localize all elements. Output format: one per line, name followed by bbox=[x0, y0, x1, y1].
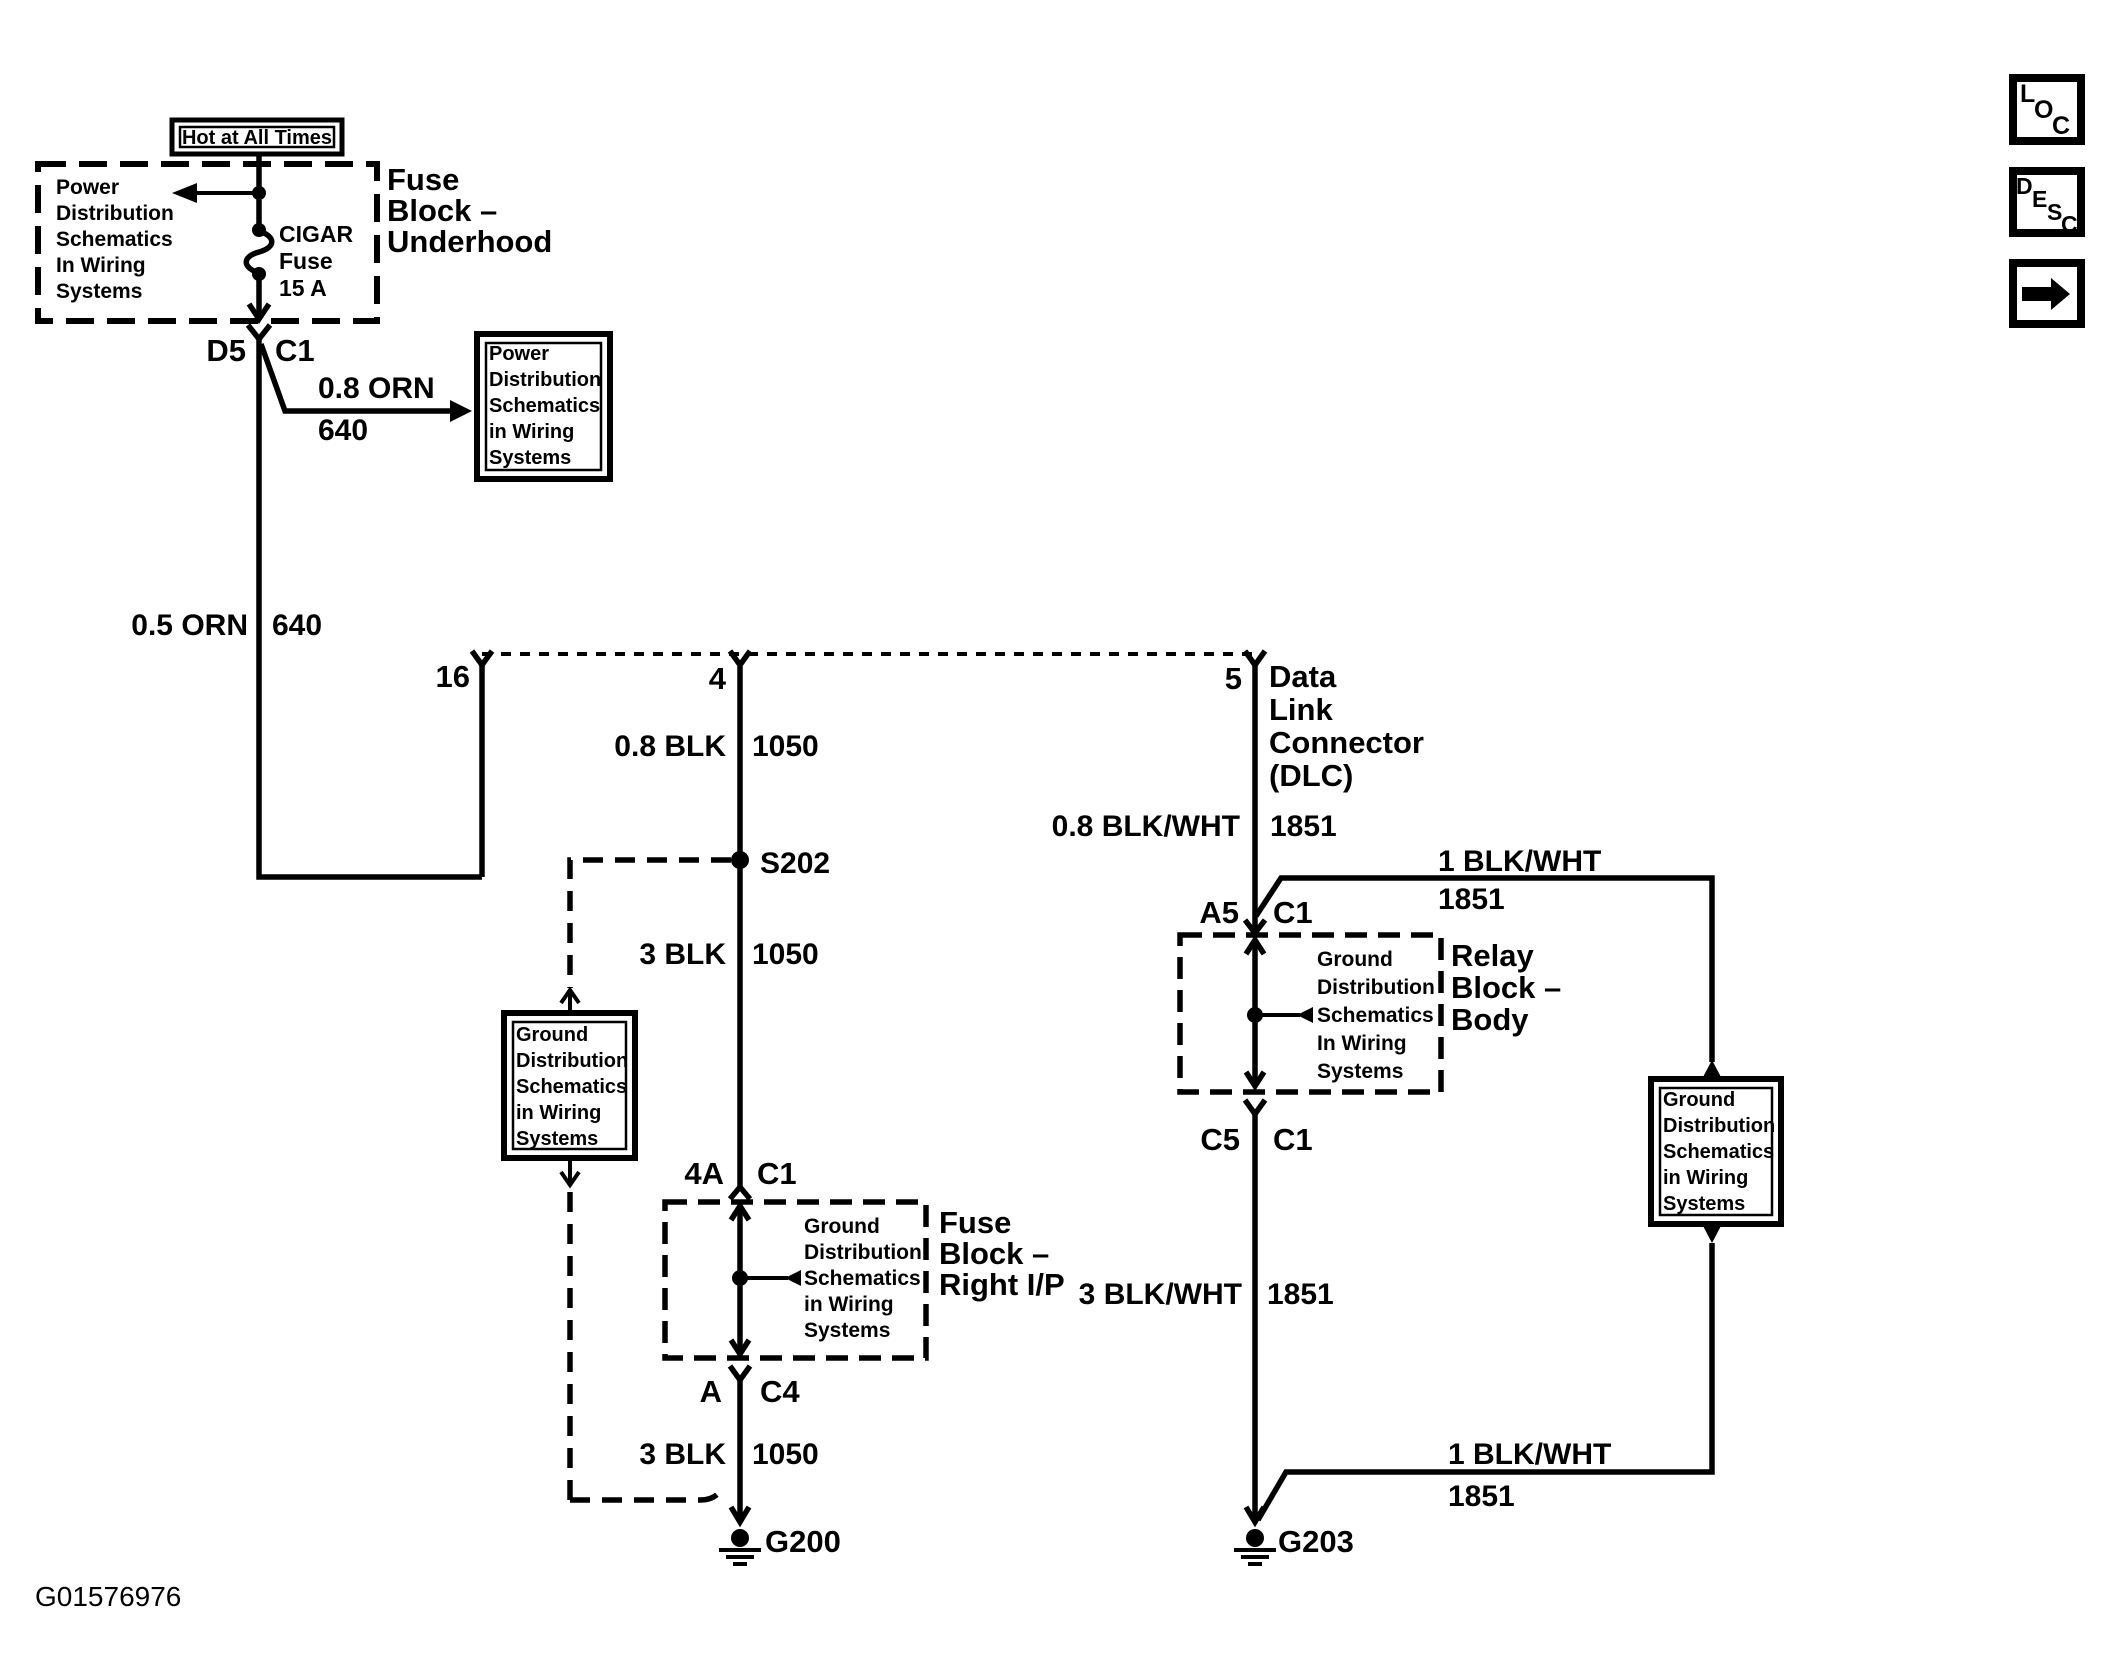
DLC dashed pin line bbox=[482, 652, 1255, 656]
wire: 0.8 BLK/WHT 1851 from pin 5 down bbox=[1252, 665, 1258, 933]
svg-text:C1: C1 bbox=[1273, 895, 1313, 930]
svg-text:Distribution: Distribution bbox=[56, 202, 174, 225]
svg-text:Ground: Ground bbox=[1317, 948, 1393, 971]
svg-text:Block –: Block – bbox=[939, 1236, 1049, 1271]
svg-text:16: 16 bbox=[436, 659, 470, 694]
dashed branch from S202 to left ground distribution reference bbox=[570, 860, 731, 988]
svg-text:Schematics: Schematics bbox=[1317, 1004, 1434, 1027]
svg-text:D5: D5 bbox=[206, 333, 246, 368]
svg-text:Systems: Systems bbox=[489, 447, 571, 469]
svg-text:640: 640 bbox=[272, 609, 322, 642]
svg-text:in Wiring: in Wiring bbox=[516, 1102, 601, 1124]
reference box: Ground Distribution Schematics in Wiring Systems (right) bbox=[1651, 1079, 1781, 1224]
junction dot at fuse feed bbox=[252, 186, 266, 200]
wire: fuse output down to connector D5 bbox=[256, 274, 262, 320]
connector symbol D5/C1 (female cup) bbox=[248, 325, 270, 339]
svg-text:Distribution: Distribution bbox=[1317, 976, 1435, 999]
svg-text:Schematics: Schematics bbox=[1663, 1141, 1774, 1163]
svg-text:C1: C1 bbox=[275, 333, 315, 368]
svg-text:1 BLK/WHT: 1 BLK/WHT bbox=[1448, 1438, 1611, 1471]
svg-text:15 A: 15 A bbox=[279, 275, 327, 301]
arrowhead up into left ground reference box bbox=[561, 990, 579, 1003]
svg-text:S202: S202 bbox=[760, 847, 830, 880]
svg-text:Relay: Relay bbox=[1451, 938, 1534, 973]
down arrowhead inside relay block bbox=[1246, 1072, 1264, 1086]
dashed line bottom run to G200 wire bbox=[570, 1488, 722, 1500]
arrowhead to Power Distribution Schematics (left) bbox=[172, 183, 197, 203]
svg-text:D: D bbox=[2016, 173, 2033, 199]
ground symbol G203 bbox=[1246, 1529, 1264, 1547]
svg-text:0.5 ORN: 0.5 ORN bbox=[131, 609, 248, 642]
svg-text:In Wiring: In Wiring bbox=[56, 254, 146, 277]
svg-text:1050: 1050 bbox=[752, 1438, 819, 1471]
splice S202 dot bbox=[731, 851, 749, 869]
reference box: Ground Distribution Schematics in Wiring Systems (left) bbox=[504, 1013, 635, 1158]
wire: pin 16 down to junction with 0.5 ORN bbox=[479, 665, 485, 877]
icon box next arrow bbox=[2013, 263, 2081, 324]
connector symbol A5/C1 (cup) bbox=[1245, 920, 1265, 933]
down arrowhead inside fuse block right I/P bbox=[731, 1340, 749, 1354]
svg-text:Power: Power bbox=[56, 176, 119, 199]
svg-text:1851: 1851 bbox=[1270, 810, 1337, 843]
open arrowhead above ground G200 bbox=[731, 1507, 749, 1522]
dashed box: Relay Block - Body bbox=[1180, 935, 1441, 1092]
svg-text:C5: C5 bbox=[1200, 1122, 1240, 1157]
svg-text:1050: 1050 bbox=[752, 938, 819, 971]
arrowhead down out of right ground reference box bbox=[1702, 1224, 1722, 1243]
DLC pin 4 cup bbox=[730, 651, 750, 665]
wire: 1 BLK/WHT 1851 upper branch from pin5 wire bbox=[1256, 878, 1712, 1062]
svg-text:Distribution: Distribution bbox=[516, 1050, 628, 1072]
svg-text:1851: 1851 bbox=[1448, 1480, 1515, 1513]
svg-text:Hot at All Times: Hot at All Times bbox=[182, 127, 332, 149]
wire: 0.5 ORN 640 down left column bbox=[259, 339, 482, 877]
junction dot inside fuse block right I/P bbox=[732, 1270, 748, 1286]
svg-text:Ground: Ground bbox=[516, 1024, 588, 1046]
svg-text:Fuse: Fuse bbox=[279, 248, 333, 274]
arrowhead up into right ground reference box bbox=[1702, 1060, 1722, 1079]
svg-text:Block –: Block – bbox=[387, 193, 497, 228]
svg-text:1050: 1050 bbox=[752, 730, 819, 763]
svg-text:Data: Data bbox=[1269, 659, 1337, 694]
svg-text:Schematics: Schematics bbox=[489, 395, 600, 417]
svg-text:0.8 BLK/WHT: 0.8 BLK/WHT bbox=[1052, 810, 1240, 843]
svg-text:Systems: Systems bbox=[1663, 1193, 1745, 1215]
svg-text:3 BLK/WHT: 3 BLK/WHT bbox=[1079, 1278, 1242, 1311]
open arrowhead down at fuse block exit bbox=[249, 304, 269, 319]
svg-text:CIGAR: CIGAR bbox=[279, 221, 354, 247]
DLC pin 16 cup bbox=[472, 651, 492, 665]
svg-text:4: 4 bbox=[709, 661, 727, 696]
svg-text:5: 5 bbox=[1225, 661, 1242, 696]
svg-text:Underhood: Underhood bbox=[387, 224, 552, 259]
svg-text:Systems: Systems bbox=[804, 1319, 890, 1342]
svg-text:G01576976: G01576976 bbox=[35, 1581, 181, 1612]
svg-text:Distribution: Distribution bbox=[804, 1241, 922, 1264]
svg-text:Distribution: Distribution bbox=[1663, 1115, 1775, 1137]
svg-text:640: 640 bbox=[318, 414, 368, 447]
svg-text:Systems: Systems bbox=[516, 1128, 598, 1150]
svg-text:1851: 1851 bbox=[1438, 883, 1505, 916]
svg-text:Connector: Connector bbox=[1269, 725, 1424, 760]
svg-text:3 BLK: 3 BLK bbox=[639, 1438, 726, 1471]
svg-text:1851: 1851 bbox=[1267, 1278, 1334, 1311]
svg-text:C: C bbox=[2061, 211, 2078, 237]
icon box DESC bbox=[2013, 171, 2081, 233]
junction dot inside relay block bbox=[1247, 1007, 1263, 1023]
svg-text:In Wiring: In Wiring bbox=[1317, 1032, 1407, 1055]
svg-text:Fuse: Fuse bbox=[387, 162, 459, 197]
svg-text:L: L bbox=[2020, 80, 2035, 108]
connector cup below relay block (pin C5) bbox=[1245, 1100, 1265, 1114]
connector cup below fuse block right I/P (pin A) bbox=[730, 1366, 750, 1380]
icon box LOC bbox=[2013, 78, 2081, 141]
svg-text:0.8 ORN: 0.8 ORN bbox=[318, 372, 435, 405]
dashed box: Fuse Block - Right I/P bbox=[665, 1202, 926, 1358]
wire: 0.8 ORN branch diagonal bbox=[261, 344, 455, 411]
svg-text:(DLC): (DLC) bbox=[1269, 758, 1353, 793]
svg-text:Block –: Block – bbox=[1451, 970, 1561, 1005]
svg-text:in Wiring: in Wiring bbox=[489, 421, 574, 443]
svg-text:A5: A5 bbox=[1199, 895, 1239, 930]
svg-text:Body: Body bbox=[1451, 1002, 1529, 1037]
wire: 3 BLK 1050 down to G200 bbox=[737, 1380, 743, 1522]
wire: feed to power distribution (left arrow branch) bbox=[194, 191, 259, 195]
svg-text:Ground: Ground bbox=[804, 1215, 880, 1238]
svg-text:Systems: Systems bbox=[1317, 1060, 1403, 1083]
connector chevron above Fuse Block Right I/P (pin 4A) bbox=[730, 1187, 750, 1199]
svg-text:E: E bbox=[2032, 186, 2047, 212]
svg-text:Distribution: Distribution bbox=[489, 369, 601, 391]
up arrowhead inside relay block bbox=[1246, 940, 1264, 954]
dashed box: Fuse Block - Underhood bbox=[38, 164, 377, 321]
svg-text:C1: C1 bbox=[757, 1156, 797, 1191]
svg-text:1 BLK/WHT: 1 BLK/WHT bbox=[1438, 845, 1601, 878]
label box: Hot at All Times bbox=[172, 120, 342, 154]
svg-text:Systems: Systems bbox=[56, 280, 142, 303]
wire: 3 BLK/WHT 1851 down to G203 bbox=[1252, 1114, 1258, 1522]
svg-text:Fuse: Fuse bbox=[939, 1205, 1011, 1240]
reference box: Power Distribution Schematics in Wiring Systems (double border) bbox=[477, 334, 610, 479]
internal lead to reference text (left-pointing solid triangle) bbox=[740, 1276, 788, 1280]
fuse CIGAR 15 A (S-curve with end dots) bbox=[252, 223, 266, 237]
svg-text:C1: C1 bbox=[1273, 1122, 1313, 1157]
svg-text:Ground: Ground bbox=[1663, 1089, 1735, 1111]
svg-text:Schematics: Schematics bbox=[516, 1076, 627, 1098]
svg-text:Right I/P: Right I/P bbox=[939, 1267, 1065, 1302]
svg-text:Schematics: Schematics bbox=[804, 1267, 921, 1290]
dashed line continuing down from reference box bbox=[567, 1192, 573, 1500]
up arrowhead inside fuse block right I/P bbox=[731, 1206, 749, 1220]
svg-text:Power: Power bbox=[489, 343, 549, 365]
wire: hot feed from Hot at All Times into fuse block bbox=[256, 155, 262, 231]
wire: 1 BLK/WHT 1851 lower branch to G203 bbox=[1258, 1243, 1712, 1520]
svg-text:in Wiring: in Wiring bbox=[804, 1293, 894, 1316]
DLC pin 5 cup bbox=[1245, 651, 1265, 665]
internal lead to reference text (left-pointing solid triangle) bbox=[1255, 1013, 1300, 1017]
svg-text:O: O bbox=[2034, 96, 2053, 124]
svg-text:in Wiring: in Wiring bbox=[1663, 1167, 1748, 1189]
svg-text:C: C bbox=[2052, 112, 2070, 140]
svg-text:G203: G203 bbox=[1278, 1524, 1354, 1559]
svg-text:G200: G200 bbox=[765, 1524, 841, 1559]
svg-text:0.8 BLK: 0.8 BLK bbox=[614, 730, 726, 763]
svg-text:3 BLK: 3 BLK bbox=[639, 938, 726, 971]
svg-text:Link: Link bbox=[1269, 692, 1333, 727]
arrowhead down out of left ground reference box bbox=[568, 1158, 572, 1185]
svg-text:4A: 4A bbox=[684, 1156, 724, 1191]
svg-text:Schematics: Schematics bbox=[56, 228, 173, 251]
wire: 0.8 BLK 1050 from pin 4 down bbox=[737, 665, 743, 1189]
svg-text:C4: C4 bbox=[760, 1374, 800, 1409]
svg-text:A: A bbox=[700, 1374, 722, 1409]
arrowhead into Power Distribution Schematics box bbox=[450, 400, 472, 422]
open arrowhead above ground G203 bbox=[1246, 1507, 1264, 1522]
ground symbol G200 bbox=[731, 1529, 749, 1547]
